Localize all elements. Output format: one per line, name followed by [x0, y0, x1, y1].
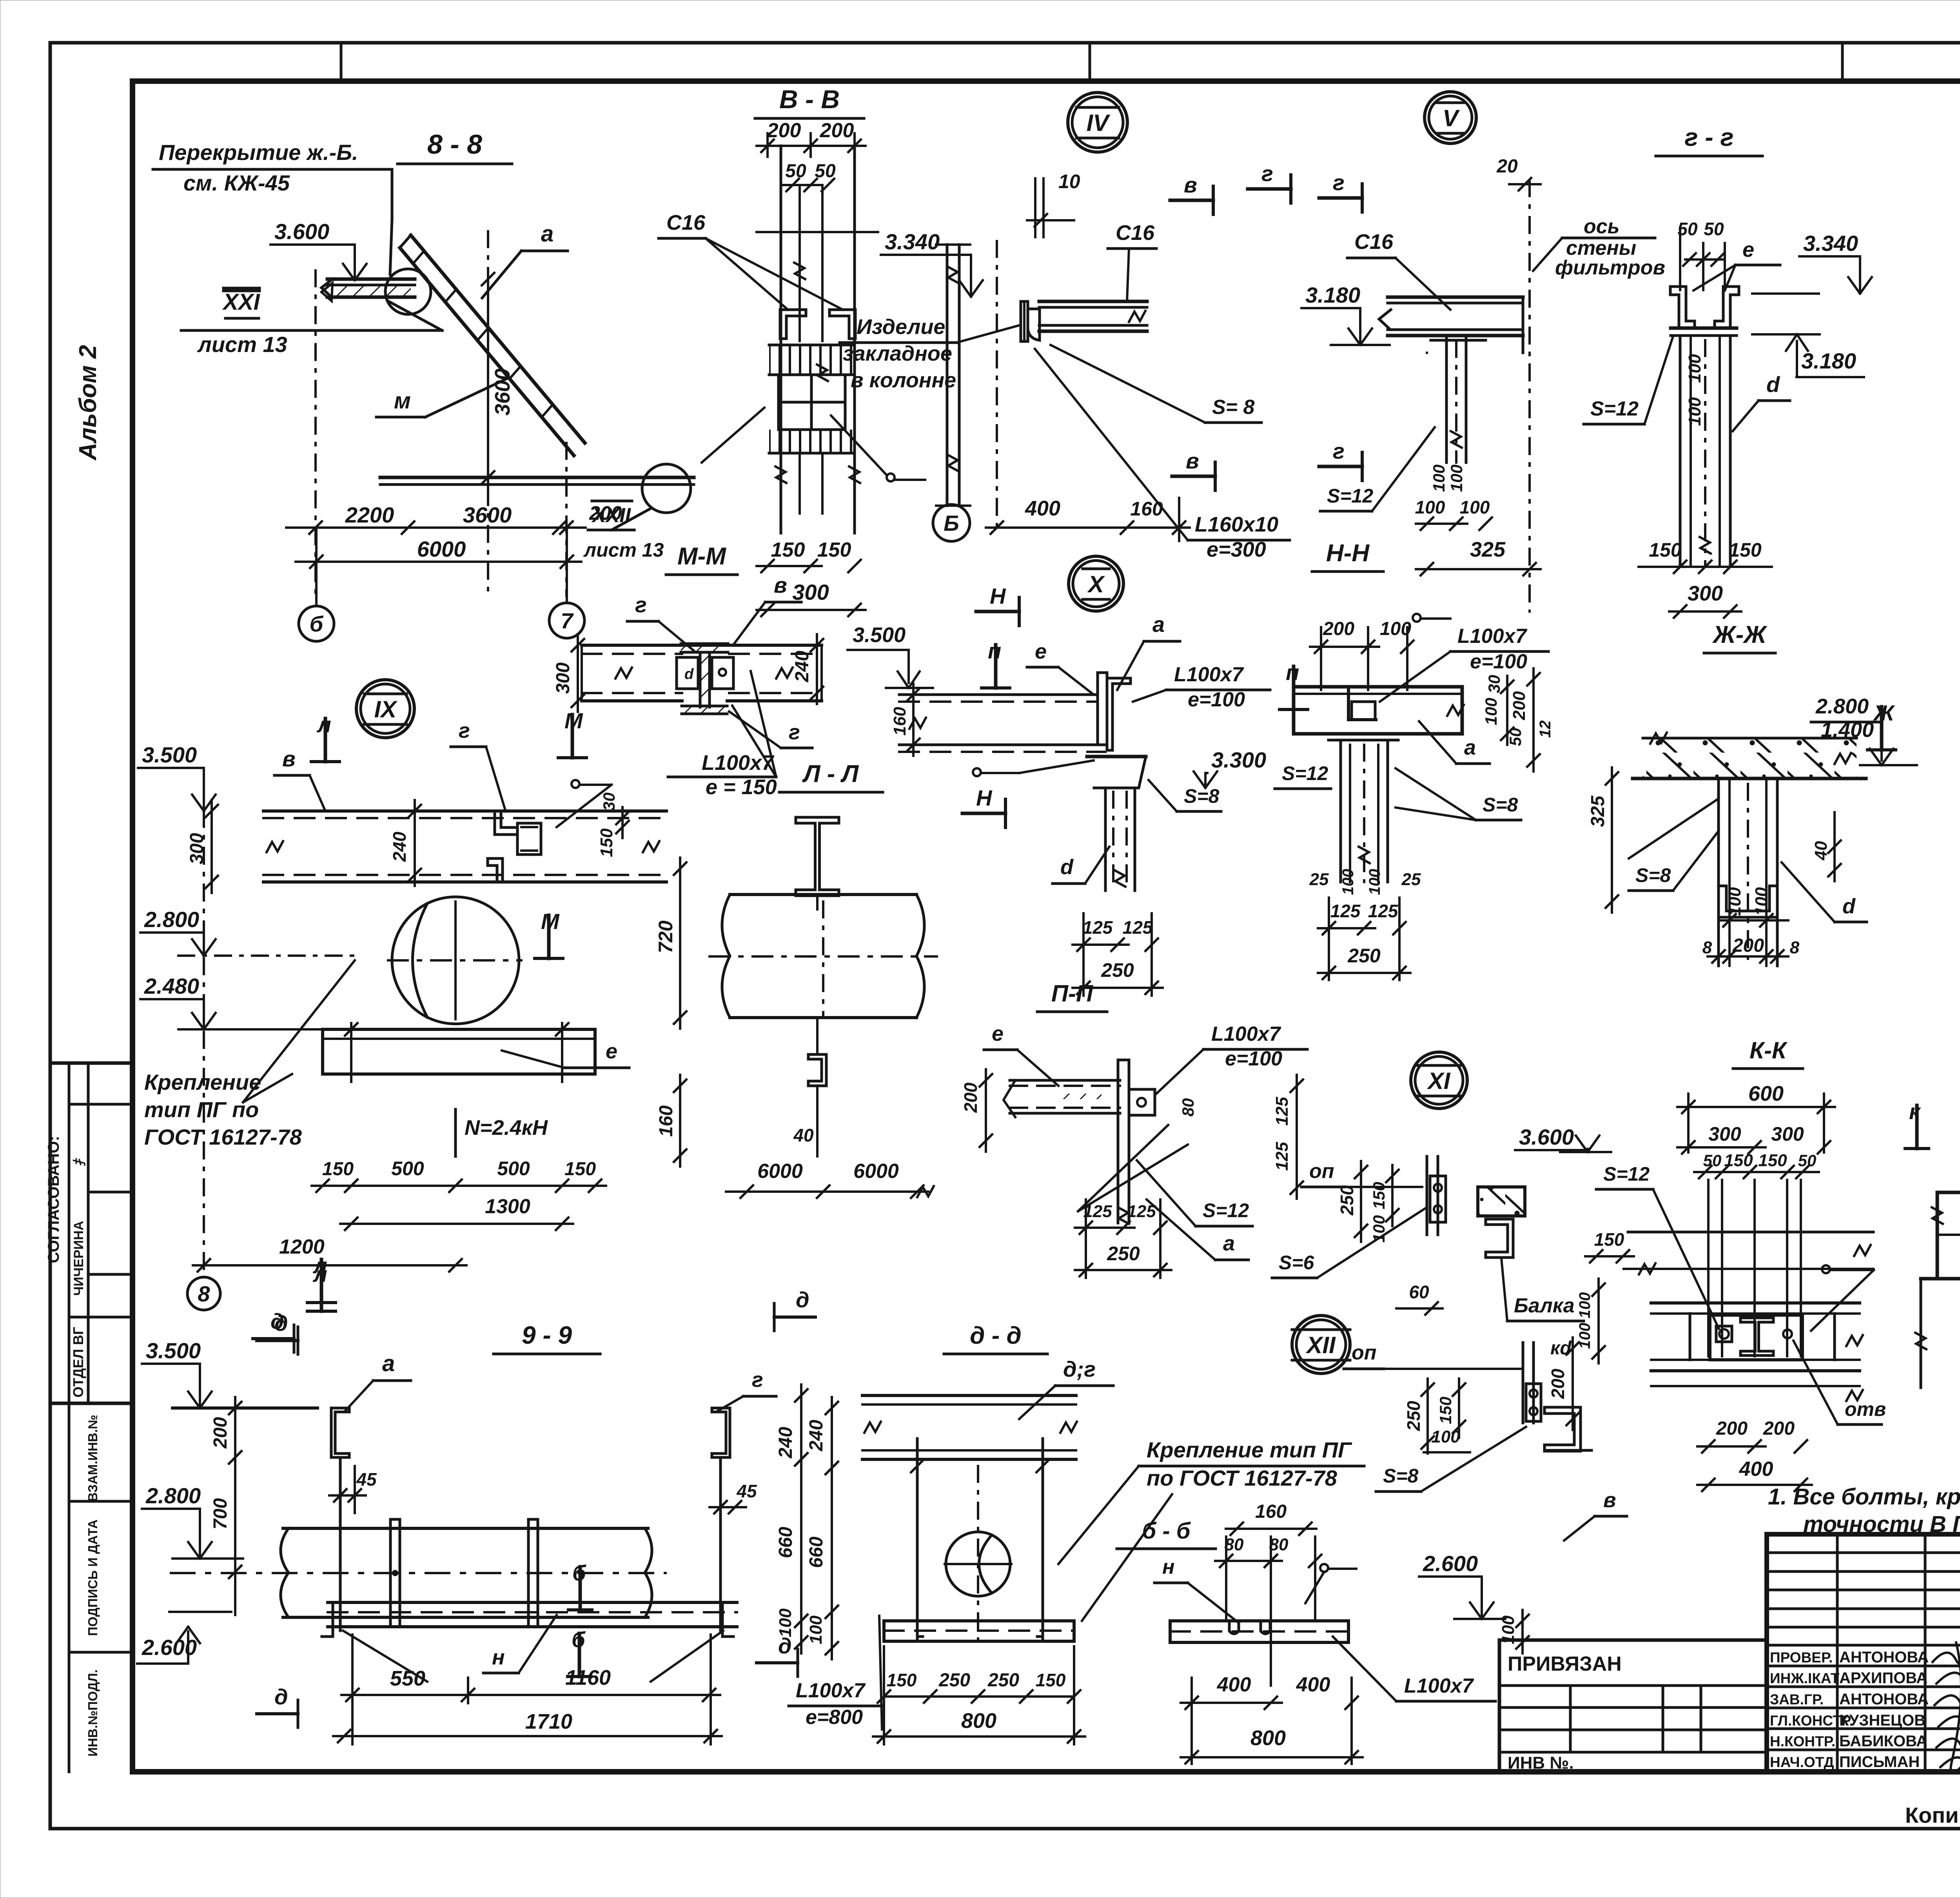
V-V column lines: [780, 146, 782, 486]
V-V break bottom: [775, 466, 786, 483]
svg-text:400: 400: [1739, 1458, 1773, 1481]
svg-text:лист 13: лист 13: [583, 539, 664, 561]
Zh hanger: [1717, 778, 1720, 966]
svg-text:60: 60: [1409, 1282, 1429, 1302]
N-N beam: [1294, 687, 1462, 734]
b-b flag: [1320, 1564, 1328, 1572]
svg-text:200: 200: [767, 119, 801, 142]
g-g right channels: [1670, 287, 1695, 328]
9-9 channel left: [331, 1408, 349, 1457]
svg-text:Балка: Балка: [1514, 1294, 1575, 1317]
section marks g left: [1319, 196, 1362, 200]
svg-text:М: М: [564, 708, 583, 733]
svg-text:е: е: [1035, 640, 1047, 663]
title block signatures: [1933, 1652, 1960, 1670]
svg-text:S=12: S=12: [1203, 1199, 1249, 1221]
svg-text:в: в: [282, 746, 296, 771]
svg-text:б: б: [572, 1560, 586, 1585]
svg-text:80: 80: [1179, 1098, 1197, 1117]
P-P diag leaders: [1078, 1125, 1168, 1211]
svg-text:250: 250: [1403, 1401, 1424, 1431]
svg-text:250: 250: [938, 1670, 970, 1691]
svg-text:АНТОНОВА: АНТОНОВА: [1839, 1649, 1929, 1666]
IX M mark lower: [547, 915, 551, 958]
svg-text:50: 50: [785, 161, 806, 181]
svg-text:20: 20: [1496, 156, 1518, 177]
dim 3600 vertical: [487, 268, 489, 488]
svg-text:160: 160: [1255, 1501, 1287, 1522]
M-M beams horizontal: [582, 644, 822, 647]
svg-text:л: л: [312, 1262, 327, 1287]
svg-text:160: 160: [1130, 498, 1163, 520]
svg-text:S=12: S=12: [1603, 1163, 1650, 1185]
svg-text:200: 200: [210, 1417, 231, 1449]
svg-text:325: 325: [1470, 538, 1506, 561]
9-9 section marks top: [320, 1268, 323, 1311]
svg-text:закладное: закладное: [843, 342, 952, 365]
svg-text:г - г: г - г: [1684, 123, 1733, 151]
svg-text:в: в: [1603, 1488, 1616, 1512]
svg-text:7: 7: [561, 608, 574, 633]
svg-text:L160х10: L160х10: [1195, 513, 1278, 536]
svg-text:2.480: 2.480: [144, 974, 199, 998]
svg-text:100: 100: [1460, 497, 1490, 517]
svg-text:ось: ось: [1584, 215, 1620, 238]
svg-text:3.300: 3.300: [1211, 748, 1266, 772]
N-N angle in beam: [1348, 688, 1376, 720]
svg-text:150: 150: [817, 539, 851, 561]
svg-text:1300: 1300: [485, 1195, 530, 1218]
svg-text:125: 125: [1083, 917, 1113, 938]
IX lower beam: [323, 1029, 595, 1074]
node circle XXI on 8-8: [385, 269, 431, 314]
svg-text:200: 200: [1763, 1418, 1795, 1439]
node circle XXII on 8-8: [642, 464, 691, 513]
svg-text:Изделие: Изделие: [857, 315, 945, 339]
g-g right plate: [1671, 327, 1737, 330]
svg-text:S= 8: S= 8: [1212, 396, 1254, 419]
svg-text:150: 150: [1649, 539, 1682, 561]
svg-text:240: 240: [775, 1427, 796, 1459]
svg-text:8: 8: [198, 1281, 210, 1306]
svg-text:ПОДПИСЬ И ДАТА: ПОДПИСЬ И ДАТА: [85, 1519, 100, 1636]
XI beam section: [1478, 1187, 1525, 1216]
svg-text:500: 500: [391, 1158, 424, 1179]
svg-text:100: 100: [1685, 397, 1704, 426]
svg-text:200: 200: [1548, 1368, 1568, 1399]
d-d2 bottom plate: [884, 1621, 1074, 1641]
svg-text:S=8: S=8: [1483, 794, 1518, 816]
P-P beam: [1010, 1079, 1120, 1082]
svg-text:S=8: S=8: [1184, 785, 1220, 807]
IX l mark bottom: [320, 1259, 323, 1303]
svg-text:100: 100: [1431, 1427, 1460, 1446]
svg-text:3.600: 3.600: [1519, 1125, 1574, 1149]
svg-text:8: 8: [1702, 938, 1712, 957]
svg-text:50: 50: [1704, 219, 1724, 239]
svg-text:325: 325: [1588, 795, 1608, 827]
svg-text:2.800: 2.800: [144, 907, 199, 932]
svg-text:1710: 1710: [525, 1710, 572, 1733]
svg-text:НАЧ.ОТД: НАЧ.ОТД: [1770, 1754, 1834, 1770]
stamp box soglasovano: [50, 1062, 132, 1065]
svg-text:ИНВ.№ПОДЛ.: ИНВ.№ПОДЛ.: [85, 1669, 100, 1756]
svg-text:XI: XI: [1427, 1068, 1451, 1094]
svg-text:550: 550: [390, 1667, 425, 1690]
IV angle seat: [1021, 301, 1028, 341]
svg-text:точности В ГОСТ 7798-70.: точности В ГОСТ 7798-70.: [1803, 1512, 1960, 1537]
d-d2 beam top: [862, 1394, 1076, 1397]
svg-text:г: г: [1261, 161, 1273, 186]
svg-text:300: 300: [1688, 582, 1723, 605]
svg-text:по ГОСТ 16127-78: по ГОСТ 16127-78: [1147, 1466, 1338, 1490]
svg-text:Н: Н: [976, 786, 993, 810]
svg-text:3600: 3600: [491, 368, 514, 416]
svg-text:см. КЖ-45: см. КЖ-45: [183, 171, 290, 195]
svg-text:150: 150: [1729, 539, 1762, 561]
svg-text:300: 300: [553, 662, 573, 694]
svg-text:Н: Н: [990, 584, 1006, 608]
svg-text:100: 100: [1752, 887, 1771, 916]
stair stringer 8-8: [411, 235, 585, 443]
L-L pipe: [730, 893, 916, 896]
svg-text:К-К: К-К: [1749, 1037, 1788, 1063]
node circle IX: [356, 680, 414, 738]
svg-text:а: а: [1464, 736, 1476, 759]
svg-text:л: л: [316, 712, 331, 737]
svg-text:700: 700: [210, 1498, 231, 1530]
svg-text:L100х7: L100х7: [1211, 1023, 1281, 1045]
svg-text:45: 45: [356, 1469, 377, 1490]
svg-text:d: d: [1842, 895, 1856, 918]
X leader dot: [973, 768, 981, 776]
svg-text:С16: С16: [1116, 221, 1155, 245]
svg-text:100: 100: [776, 1608, 795, 1637]
svg-text:2200: 2200: [345, 503, 394, 527]
svg-text:125: 125: [1272, 1097, 1292, 1126]
svg-text:б: б: [572, 1627, 586, 1652]
svg-text:тип ПГ по: тип ПГ по: [144, 1097, 259, 1122]
svg-text:м: м: [394, 388, 411, 414]
svg-text:25: 25: [1401, 870, 1421, 889]
9-9 beam under pipe: [328, 1601, 737, 1604]
svg-text:50: 50: [1506, 728, 1524, 746]
svg-text:125: 125: [1272, 1142, 1292, 1171]
svg-text:ПРИВЯЗАН: ПРИВЯЗАН: [1508, 1653, 1622, 1675]
IV axis line: [996, 241, 998, 529]
svg-text:г: г: [459, 719, 470, 742]
svg-text:160: 160: [656, 1105, 677, 1137]
svg-text:L100х7: L100х7: [1174, 663, 1244, 686]
IV axis circle B: [933, 504, 970, 541]
XII plate bolts: [1526, 1384, 1541, 1421]
svg-text:125: 125: [1330, 901, 1361, 921]
IX axis circle 8: [187, 1277, 220, 1310]
svg-text:300: 300: [1708, 1123, 1741, 1145]
top margin ticks: [340, 43, 343, 81]
axis circle 7: [549, 603, 584, 638]
svg-text:6000: 6000: [757, 1160, 803, 1183]
title block frame: [1767, 1534, 1960, 1772]
svg-text:S=12: S=12: [1327, 485, 1373, 507]
svg-text:S=8: S=8: [1383, 1465, 1419, 1487]
svg-text:3.500: 3.500: [853, 623, 906, 647]
svg-text:лист 13: лист 13: [197, 332, 287, 357]
svg-text:н: н: [492, 1646, 505, 1669]
slab 8-8: [327, 278, 415, 281]
9-9 diag leaders: [343, 1631, 427, 1682]
IV wall column: [946, 245, 949, 506]
svg-text:Ж-Ж: Ж-Ж: [1712, 621, 1768, 648]
svg-text:200: 200: [1732, 935, 1764, 956]
svg-text:е=100: е=100: [1470, 650, 1527, 673]
svg-text:150: 150: [1594, 1229, 1624, 1250]
svg-text:150: 150: [1036, 1670, 1066, 1690]
svg-text:150: 150: [771, 539, 805, 561]
Zh channel bottom: [1719, 886, 1777, 917]
svg-text:150: 150: [1370, 1182, 1388, 1209]
svg-text:в колонне: в колонне: [851, 368, 956, 392]
svg-text:в: в: [774, 573, 787, 597]
svg-text:S=12: S=12: [1590, 397, 1639, 420]
N-N col: [1339, 740, 1342, 882]
L-L ibeam: [796, 817, 839, 896]
svg-text:БАБИКОВА: БАБИКОВА: [1839, 1733, 1927, 1750]
svg-text:150: 150: [322, 1159, 354, 1179]
svg-text:160: 160: [890, 707, 909, 736]
X bracket angle: [1098, 673, 1107, 745]
svg-text:3.500: 3.500: [142, 742, 197, 767]
svg-text:АРХИПОВА: АРХИПОВА: [1839, 1669, 1927, 1687]
svg-text:д: д: [270, 1309, 284, 1334]
svg-text:КУЗНЕЦОВ: КУЗНЕЦОВ: [1839, 1712, 1926, 1729]
svg-text:660: 660: [775, 1527, 796, 1558]
svg-text:оп: оп: [1352, 1341, 1377, 1364]
svg-text:125: 125: [1083, 1202, 1112, 1221]
svg-text:100: 100: [1576, 1323, 1593, 1349]
svg-text:250: 250: [987, 1670, 1019, 1691]
P-P bracket: [1117, 1060, 1120, 1156]
svg-text:L100х7: L100х7: [1404, 1675, 1474, 1697]
svg-text:800: 800: [1250, 1726, 1286, 1750]
svg-text:в: в: [1186, 448, 1199, 473]
IV section marks v: [1170, 199, 1213, 202]
svg-text:г: г: [1333, 170, 1345, 195]
Zh dims bottom: [1719, 919, 1788, 922]
svg-text:200: 200: [960, 1082, 981, 1113]
node circle XI: [1411, 1052, 1467, 1109]
svg-text:9 - 9: 9 - 9: [522, 1321, 572, 1349]
svg-text:2.800: 2.800: [1815, 695, 1869, 718]
K-K plan lines: [1628, 1231, 1873, 1234]
svg-text:X: X: [1087, 571, 1105, 597]
XII beam channel right: [1544, 1407, 1581, 1451]
X section marks: [994, 645, 998, 688]
P-P col lower: [1117, 1156, 1120, 1223]
X beam lines: [899, 693, 1098, 696]
svg-text:12: 12: [1537, 720, 1554, 738]
svg-text:扌: 扌: [73, 1154, 87, 1167]
svg-text:2.600: 2.600: [1423, 1551, 1478, 1576]
svg-text:100: 100: [1415, 497, 1445, 517]
svg-text:г: г: [1333, 439, 1345, 463]
N-N cap plate: [1328, 732, 1398, 736]
node circle V: [1425, 92, 1476, 143]
g-g axis line: [1528, 180, 1531, 611]
svg-text:н: н: [1162, 1556, 1174, 1579]
svg-text:1160: 1160: [565, 1666, 611, 1689]
V-V leader bolt: [702, 408, 764, 463]
svg-text:S=8: S=8: [1635, 864, 1671, 886]
svg-text:к: к: [1909, 1099, 1921, 1124]
svg-text:П-П: П-П: [1051, 980, 1094, 1007]
svg-text:ЧИЧЕРИНА: ЧИЧЕРИНА: [71, 1221, 86, 1296]
I-I foundation lower: [1921, 1277, 1960, 1281]
svg-text:30: 30: [600, 793, 618, 811]
IV beam C16: [1039, 300, 1147, 303]
svg-text:L100х7: L100х7: [1457, 625, 1527, 648]
svg-text:100: 100: [1499, 1615, 1518, 1644]
svg-text:8 - 8: 8 - 8: [427, 129, 482, 160]
svg-text:ПРОВЕР.: ПРОВЕР.: [1770, 1649, 1833, 1666]
X hanger cap: [1087, 757, 1146, 788]
svg-text:а: а: [541, 221, 554, 247]
V-V hatched joint: [769, 345, 854, 375]
svg-text:50: 50: [1703, 1151, 1722, 1170]
V-V channels pair: [780, 310, 806, 339]
svg-text:п: п: [1286, 660, 1299, 685]
stamp box podpis i data: [69, 1651, 132, 1654]
svg-text:6000: 6000: [417, 537, 466, 561]
svg-text:300: 300: [1771, 1123, 1804, 1145]
svg-text:6000: 6000: [853, 1160, 899, 1183]
svg-text:3600: 3600: [463, 503, 512, 527]
svg-text:АНТОНОВА: АНТОНОВА: [1839, 1691, 1929, 1708]
svg-text:30: 30: [1485, 675, 1503, 693]
floor line 8-8: [380, 476, 694, 479]
svg-text:XII: XII: [1305, 1332, 1336, 1358]
g-g right col: [1679, 336, 1682, 564]
svg-text:V: V: [1443, 105, 1460, 131]
svg-text:Б: Б: [944, 511, 959, 535]
svg-text:L100х7: L100х7: [796, 1679, 866, 1702]
9-9 pipe flanges: [390, 1519, 400, 1627]
svg-text:Копировал: Коршунова: Копировал: Коршунова: [1905, 1803, 1960, 1827]
svg-text:М: М: [541, 909, 560, 934]
svg-text:СОГЛАСОВАНО:: СОГЛАСОВАНО:: [45, 1136, 62, 1263]
svg-text:б: б: [310, 611, 324, 636]
svg-text:е: е: [1742, 238, 1754, 261]
svg-text:д;г: д;г: [1063, 1357, 1096, 1381]
svg-text:250: 250: [1101, 959, 1134, 981]
svg-text:100: 100: [1366, 869, 1383, 895]
svg-text:200: 200: [1323, 619, 1354, 639]
9-9 b marks: [579, 1567, 582, 1610]
svg-text:100: 100: [1447, 465, 1466, 492]
svg-text:IV: IV: [1087, 110, 1111, 136]
svg-text:150: 150: [887, 1670, 917, 1690]
svg-text:800: 800: [961, 1709, 996, 1733]
node circle XII: [1292, 1316, 1350, 1374]
svg-text:е=100: е=100: [1188, 688, 1245, 711]
svg-text:500: 500: [497, 1158, 530, 1179]
svg-text:д - д: д - д: [970, 1322, 1022, 1349]
svg-text:40: 40: [793, 1125, 814, 1145]
svg-text:ИНВ №.: ИНВ №.: [1508, 1753, 1574, 1773]
svg-text:d: d: [1766, 372, 1780, 397]
XI plate with bolts: [1430, 1176, 1446, 1222]
svg-text:150: 150: [1758, 1151, 1787, 1170]
svg-text:125: 125: [1123, 917, 1153, 938]
svg-text:отв: отв: [1845, 1398, 1886, 1420]
axis circle b: [299, 606, 334, 641]
9-9 pipe: [283, 1527, 648, 1530]
svg-text:150: 150: [564, 1159, 596, 1179]
svg-text:125: 125: [1368, 901, 1399, 921]
svg-text:фильтров: фильтров: [1555, 256, 1665, 279]
svg-text:В - В: В - В: [779, 85, 840, 114]
svg-text:d: d: [1060, 855, 1074, 879]
svg-text:г: г: [789, 720, 800, 744]
svg-text:е: е: [992, 1022, 1004, 1045]
stamp box vzam inv: [69, 1500, 132, 1503]
svg-text:е=800: е=800: [806, 1706, 863, 1729]
g-g left drawing beam: [1388, 296, 1523, 299]
svg-text:400: 400: [1025, 497, 1060, 520]
svg-text:125: 125: [1127, 1202, 1156, 1221]
svg-text:3.600: 3.600: [274, 219, 329, 244]
IX pipe circle: [392, 897, 519, 1024]
svg-text:200: 200: [820, 119, 854, 142]
svg-text:д: д: [274, 1684, 288, 1709]
9-9 channel right: [712, 1408, 730, 1457]
svg-text:Л - Л: Л - Л: [802, 760, 859, 788]
svg-text:Н-Н: Н-Н: [1326, 540, 1370, 567]
svg-text:ИНЖ.IКАТ: ИНЖ.IКАТ: [1770, 1670, 1840, 1686]
svg-text:С16: С16: [666, 211, 706, 234]
M-M center joint: [681, 644, 728, 652]
svg-text:400: 400: [1217, 1673, 1251, 1696]
svg-text:400: 400: [1296, 1673, 1330, 1696]
svg-text:е=100: е=100: [1225, 1047, 1282, 1070]
svg-text:200: 200: [589, 502, 622, 524]
node circle IV: [1068, 93, 1127, 152]
svg-text:е = 150: е = 150: [706, 775, 777, 799]
d-d2 hanger rods: [916, 1439, 919, 1640]
svg-text:в: в: [1184, 172, 1197, 197]
IX z-bracket: [495, 811, 517, 835]
svg-text:N=2.4кН: N=2.4кН: [465, 1116, 548, 1140]
svg-text:100: 100: [1725, 887, 1744, 916]
svg-text:100: 100: [806, 1615, 826, 1644]
svg-text:а: а: [1152, 612, 1165, 637]
svg-text:д: д: [796, 1287, 809, 1312]
svg-text:100: 100: [1685, 354, 1704, 383]
svg-text:3.180: 3.180: [1305, 283, 1360, 307]
svg-text:3.340: 3.340: [1803, 231, 1858, 256]
g-g sect marks: [1248, 187, 1291, 191]
svg-text:660: 660: [806, 1537, 827, 1568]
svg-text:а: а: [382, 1351, 395, 1376]
svg-text:г: г: [635, 592, 647, 617]
svg-text:3.500: 3.500: [146, 1338, 201, 1363]
svg-text:100: 100: [1430, 465, 1448, 492]
svg-text:Ж: Ж: [1873, 700, 1895, 725]
IX beam top: [263, 809, 666, 813]
svg-text:3.340: 3.340: [885, 229, 940, 254]
svg-text:Перекрытие ж.-Б.: Перекрытие ж.-Б.: [159, 140, 358, 165]
svg-text:б - б: б - б: [1142, 1518, 1191, 1544]
